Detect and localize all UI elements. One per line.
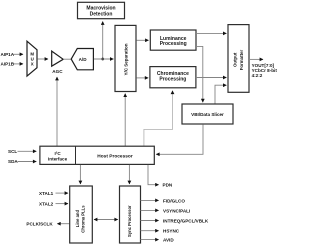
svg-text:SDA: SDA <box>8 159 18 164</box>
mux: input selector MUX <box>27 41 37 76</box>
svg-text:INTREQ/GPCL/VBLK: INTREQ/GPCL/VBLK <box>163 218 209 223</box>
svg-text:Host Processor: Host Processor <box>97 154 133 160</box>
wire: Sync Processor to FID/GLCO <box>141 199 159 201</box>
svg-text:SCL: SCL <box>8 149 17 154</box>
wire: Output Formatter to YOUT <box>249 58 263 60</box>
wire: Host Processor to Y/C Separation <box>124 94 126 146</box>
svg-text:Chroma PLLs: Chroma PLLs <box>80 205 85 233</box>
wire: Host Processor to Chrominance Processing <box>144 91 173 146</box>
wire: Host Processor to Sync Processor <box>128 165 130 184</box>
svg-text:Interface: Interface <box>48 156 68 161</box>
wire: Sync Processor to HSYNC <box>141 230 159 232</box>
svg-text:Formatter: Formatter <box>239 50 244 71</box>
wire: MUX to AGC amp <box>38 58 48 60</box>
wire: Sync Processor to AVID <box>141 239 159 241</box>
wire: Luminance Processing to VBI Data Slicer <box>196 46 203 102</box>
wire: XTAL1 to PLL <box>56 192 69 194</box>
svg-text:XTAL2: XTAL2 <box>39 201 54 206</box>
svg-text:AVID: AVID <box>163 238 174 243</box>
svg-text:PCLK/SCLK: PCLK/SCLK <box>26 222 53 227</box>
wire: AGC to A/D <box>63 58 71 60</box>
wire: Host Processor to PDN <box>148 165 159 185</box>
svg-text:FID/GLCO: FID/GLCO <box>163 198 185 203</box>
wire: AIP1A to MUX <box>14 53 24 55</box>
svg-text:AGC: AGC <box>52 69 63 74</box>
svg-text:Y/C Separation: Y/C Separation <box>124 43 129 75</box>
svg-text:AIP1A: AIP1A <box>1 52 15 57</box>
svg-text:A/D: A/D <box>79 57 88 62</box>
wire: AIP1B to MUX <box>14 63 24 65</box>
wire: PLL to Sync Processor bidirectional <box>94 219 118 221</box>
wire: Y/C Separation to Chrominance Processing <box>137 77 149 79</box>
wire: Host Processor to Line and Chroma PLLs <box>79 165 81 184</box>
wire: PLL to PCLK/SCLK <box>57 223 69 225</box>
svg-text:4:2:2: 4:2:2 <box>252 73 263 78</box>
wire: junction to Macrovision Detection <box>102 22 104 60</box>
wire: VBI Data Slicer to Output Formatter <box>215 85 226 104</box>
svg-text:HSYNC: HSYNC <box>163 229 180 234</box>
node: junction dot on A/D output <box>101 58 104 61</box>
wire: Luminance Processing to Output Formatter <box>196 32 226 34</box>
wire: Sync Processor to INTREQ/GPCL/VBLK <box>141 220 159 222</box>
svg-text:I²C: I²C <box>55 151 62 156</box>
amplifier: AGC <box>52 51 64 74</box>
box: Line and Chroma PLLs <box>70 186 93 243</box>
svg-text:PDN: PDN <box>163 183 173 188</box>
wire: VBI Data Slicer to Host Processor <box>156 125 203 155</box>
box: Output Formatter <box>228 25 249 93</box>
wire: Chrominance Processing to Output Formatter <box>196 77 227 79</box>
box: Luminance Processing <box>150 30 196 50</box>
adc: A/D converter <box>71 49 93 70</box>
wire: SCL to I2C Interface <box>18 150 37 152</box>
wire: AGC gain feedback from Host Processor <box>56 77 58 146</box>
svg-text:Output: Output <box>233 52 238 67</box>
box: Chrominance Processing <box>150 67 196 88</box>
svg-text:X: X <box>31 62 34 67</box>
svg-text:Sync Processor: Sync Processor <box>127 205 132 237</box>
svg-text:Processing: Processing <box>159 76 186 82</box>
svg-text:Processing: Processing <box>160 41 187 47</box>
box: I2C Interface / Host Processor <box>40 146 154 164</box>
box: Macrovision Detection <box>78 2 125 18</box>
box: Y/C Separation <box>115 25 136 91</box>
box: Sync Processor <box>120 186 141 243</box>
wire: XTAL2 to PLL <box>56 203 69 205</box>
label: YOUT[7:0] YCbCr 8-bit 4:2:2 <box>252 63 278 78</box>
wire: A/D to Y/C Separation <box>94 58 114 60</box>
box: VBI Data Slicer <box>182 104 233 124</box>
svg-text:Detection: Detection <box>90 12 113 18</box>
svg-text:AIP1B: AIP1B <box>1 62 15 67</box>
wire: SDA to I2C Interface <box>18 161 37 163</box>
wire: Sync Processor to VSYNC/PALI <box>141 209 159 211</box>
svg-text:VBI/Data Slicer: VBI/Data Slicer <box>191 112 224 117</box>
svg-text:XTAL1: XTAL1 <box>39 191 54 196</box>
wire: Y/C Separation to Luminance Processing <box>137 39 149 41</box>
svg-text:VSYNC/PALI: VSYNC/PALI <box>163 208 190 213</box>
